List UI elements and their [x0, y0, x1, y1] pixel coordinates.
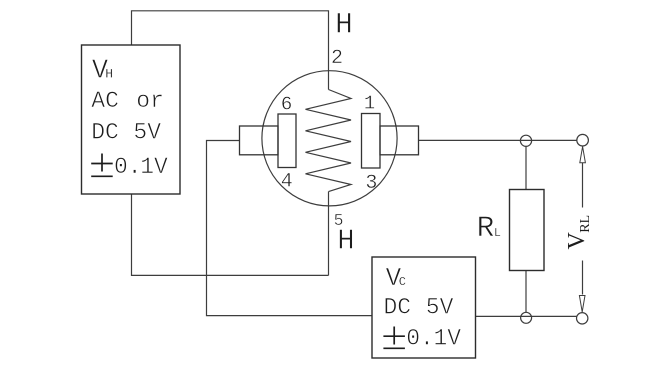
- svg-text:RL: RL: [578, 215, 593, 233]
- svg-text:4: 4: [281, 171, 293, 194]
- svg-text:or: or: [136, 88, 164, 114]
- svg-text:1V: 1V: [434, 325, 462, 351]
- svg-text:H: H: [105, 67, 113, 82]
- svg-text:1: 1: [364, 92, 375, 114]
- svg-text:DC: DC: [384, 295, 412, 321]
- svg-text:5V: 5V: [426, 295, 454, 321]
- svg-text:5V: 5V: [133, 120, 161, 146]
- svg-text:0.: 0.: [114, 154, 142, 180]
- svg-text:V: V: [564, 232, 590, 250]
- svg-text:R: R: [477, 211, 495, 245]
- svg-text:6: 6: [281, 94, 292, 116]
- svg-text:AC: AC: [91, 88, 119, 114]
- svg-text:1V: 1V: [140, 154, 168, 180]
- svg-text:H: H: [335, 7, 353, 41]
- svg-text:C: C: [399, 275, 406, 289]
- svg-text:2: 2: [331, 47, 343, 70]
- svg-text:DC: DC: [91, 120, 119, 146]
- svg-text:0.: 0.: [406, 325, 434, 351]
- svg-text:H: H: [337, 224, 354, 257]
- svg-text:3: 3: [365, 172, 377, 195]
- svg-text:L: L: [494, 227, 501, 240]
